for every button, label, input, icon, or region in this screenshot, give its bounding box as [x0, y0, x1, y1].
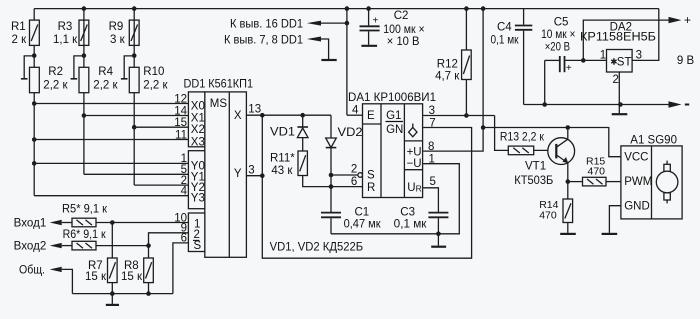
svg-text:× 10 В: × 10 В	[387, 36, 420, 48]
node Y output junction	[260, 173, 265, 178]
svg-text:E: E	[367, 110, 375, 122]
node R12 bottom junction	[464, 113, 469, 118]
wire DA1 pin3 output row	[423, 115, 495, 117]
regulator DA2 box	[607, 50, 633, 73]
svg-text:15: 15	[174, 117, 187, 129]
resistor R2 trimmer	[30, 67, 40, 92]
svg-text:G1: G1	[386, 110, 401, 122]
node X0 junction	[32, 101, 37, 106]
wire DD1 pin3 Y output row	[246, 175, 262, 177]
svg-text:1: 1	[429, 154, 435, 166]
wire VT1 emitter down	[567, 163, 569, 199]
node X1 junction	[82, 113, 87, 118]
svg-text:Вход2: Вход2	[14, 241, 47, 253]
wire timing loop to DA1 pin7	[262, 115, 471, 258]
svg-text:6: 6	[351, 176, 357, 188]
wire R12 bottom	[465, 80, 467, 116]
svg-text:Вход1: Вход1	[14, 218, 47, 230]
svg-text:X: X	[234, 110, 242, 122]
ground chassis below R7	[111, 294, 113, 304]
svg-text:+: +	[566, 63, 572, 74]
svg-text:3: 3	[429, 105, 435, 117]
wire VT1 collector up	[567, 128, 569, 140]
wire R4 trimmer tap	[74, 56, 84, 79]
svg-text:14: 14	[174, 105, 187, 117]
node X3 junction	[32, 137, 37, 142]
svg-text:C4: C4	[497, 22, 512, 34]
wire to DD1 pin16 power	[321, 22, 347, 24]
node X2 junction	[132, 125, 137, 130]
svg-text:VD2: VD2	[338, 127, 363, 139]
svg-text:10 мк ×: 10 мк ×	[541, 29, 575, 41]
node riser rail junction	[481, 6, 486, 11]
arrow Vhod1	[50, 220, 62, 225]
multiplexer DD1 address field	[188, 213, 204, 252]
svg-text:R5* 9,1 к: R5* 9,1 к	[62, 204, 108, 216]
node R3 R4 junction	[82, 53, 87, 58]
svg-text:C2: C2	[394, 10, 409, 22]
svg-text:+U: +U	[407, 147, 422, 159]
node X output junction	[260, 113, 265, 118]
svg-text:3: 3	[636, 50, 642, 62]
svg-text:A1 SG90: A1 SG90	[630, 135, 677, 147]
wire minus sign dash	[685, 104, 689, 106]
wire +5V top rail	[34, 8, 659, 10]
svg-text:DA1 КР1006ВИ1: DA1 КР1006ВИ1	[348, 92, 436, 104]
svg-text:R3: R3	[58, 21, 73, 33]
resistor R5	[72, 218, 96, 227]
svg-text:ST: ST	[617, 57, 632, 69]
wire ground row C1 C3	[331, 164, 459, 234]
svg-text:X0: X0	[191, 101, 205, 113]
svg-text:С5: С5	[554, 16, 569, 28]
wire R8 bottom	[148, 283, 150, 294]
node emitter junction	[566, 179, 571, 184]
svg-text:12: 12	[174, 93, 187, 105]
svg-text:3 к: 3 к	[110, 34, 126, 46]
svg-text:MS: MS	[210, 98, 228, 110]
node R1 R2 junction	[32, 53, 37, 58]
resistor R15	[583, 177, 607, 186]
wire R11 bottom to pin6 row	[303, 176, 363, 187]
arrow Obsch	[50, 267, 62, 272]
symbol DA2 stabilizer star	[613, 58, 615, 64]
node C3 ground junction	[436, 232, 441, 237]
timer DA1 E field divider	[363, 123, 382, 125]
resistor R7	[108, 258, 118, 283]
wire R5 to DD1 pin10	[96, 222, 188, 224]
svg-text:Y3: Y3	[191, 193, 205, 205]
svg-text:R13 2,2 к: R13 2,2 к	[500, 132, 545, 144]
node riser collector row junction	[481, 125, 486, 130]
svg-text:100 мк ×: 100 мк ×	[383, 24, 424, 36]
node R7 top junction	[110, 220, 115, 225]
wire bottom common rail	[72, 293, 172, 295]
svg-text:R: R	[416, 183, 422, 193]
timer DA1 UR field divider	[404, 169, 422, 171]
symbol servo motor	[666, 161, 668, 165]
node R9 R10 junction	[132, 53, 137, 58]
wire R15 to PWM	[606, 181, 621, 183]
wire R9 to R10	[133, 9, 135, 68]
servo A1 box	[621, 146, 682, 219]
svg-text:8: 8	[428, 141, 434, 153]
wire DD1 pin13 X output row	[246, 114, 331, 116]
svg-text:+: +	[684, 13, 691, 27]
node Y0 junction	[32, 161, 37, 166]
svg-text:С1: С1	[355, 207, 370, 219]
svg-text:+: +	[373, 16, 379, 27]
node rail junction R3	[82, 6, 87, 11]
wire Y0 row	[34, 162, 188, 164]
wire R13 to VT1 base	[534, 149, 556, 151]
svg-text:2,2 к: 2,2 к	[143, 79, 168, 91]
svg-text:U: U	[407, 182, 415, 194]
svg-text:VD1, VD2 КД522Б: VD1, VD2 КД522Б	[270, 241, 364, 253]
timer DA1 box	[363, 104, 423, 198]
svg-text:1: 1	[600, 50, 606, 62]
capacitor C3	[428, 212, 448, 214]
svg-text:0,1 мк: 0,1 мк	[394, 219, 428, 231]
multiplexer DD1 Y label field	[188, 151, 204, 209]
svg-text:13: 13	[248, 104, 261, 116]
wire Y2 row	[134, 184, 188, 186]
wire X2 row	[134, 126, 188, 128]
wire R3 to R4	[83, 9, 85, 68]
wire column1 X0 to Y3	[33, 104, 35, 196]
wire C5 ground drop	[544, 60, 546, 104]
node VD1 top junction	[300, 113, 305, 118]
wire X3 row	[34, 139, 188, 141]
timer DA1 output field divider	[404, 140, 422, 142]
node pin16 branch junction	[345, 21, 350, 26]
svg-text:VT1: VT1	[525, 161, 546, 173]
wire R1 to R2	[33, 45, 35, 67]
svg-text:DD1 К561КП1: DD1 К561КП1	[184, 78, 254, 90]
svg-text:X2: X2	[191, 124, 205, 136]
label DD1 pin numbers	[174, 93, 187, 244]
svg-text:1,1 к: 1,1 к	[53, 34, 78, 46]
wire R1 R3 R9 top rail corner	[33, 9, 35, 21]
svg-text:2,2 к: 2,2 к	[43, 79, 68, 91]
svg-text:3: 3	[248, 165, 254, 177]
svg-text:5: 5	[430, 176, 436, 188]
symbol DA1 output diamond	[412, 124, 414, 128]
ground chassis below R14	[560, 233, 576, 235]
svg-text:×20 В: ×20 В	[545, 42, 571, 54]
wire to DD1 pins 7 8 ground	[321, 39, 329, 59]
wire R7 top	[111, 223, 113, 259]
svg-text:VCC: VCC	[624, 152, 648, 164]
svg-text:7: 7	[429, 118, 435, 130]
wire column2 X1 to Y1	[83, 116, 85, 175]
svg-text:S: S	[367, 169, 375, 181]
resistor R13	[508, 146, 533, 155]
wire R2 trimmer tap	[24, 56, 34, 79]
svg-text:R: R	[367, 182, 375, 194]
wire column3 X2 to Y2	[133, 127, 135, 185]
node R12 rail junction	[464, 6, 469, 11]
wire X0 row	[34, 103, 188, 105]
wire battery plus line	[583, 20, 668, 60]
svg-text:Y: Y	[234, 168, 242, 180]
wire servo GND	[609, 206, 621, 233]
node battery plus junction	[581, 58, 586, 63]
wire DA2 pin2 stub	[618, 72, 620, 105]
svg-text:15 к: 15 к	[121, 271, 143, 283]
svg-text:К выв. 16 DD1: К выв. 16 DD1	[230, 18, 303, 30]
svg-text:9 В: 9 В	[677, 55, 695, 67]
arrow battery minus terminal	[669, 101, 682, 107]
svg-text:470: 470	[588, 166, 606, 178]
wire Vhod1 input row	[62, 222, 72, 224]
svg-text:VD1: VD1	[270, 127, 295, 139]
node DA2 pin2 ground junction	[618, 102, 623, 107]
arrow to DD1 pin16	[307, 21, 321, 26]
ground chassis servo	[602, 233, 618, 235]
svg-text:470: 470	[539, 209, 557, 221]
svg-text:R4: R4	[98, 66, 113, 78]
svg-text:S: S	[194, 240, 202, 252]
svg-text:X1: X1	[191, 113, 205, 125]
wire X1 row	[84, 115, 188, 117]
svg-text:R12: R12	[437, 58, 458, 70]
resistor R12	[462, 50, 472, 80]
svg-text:R11*: R11*	[270, 152, 295, 164]
wire DA1 pin3 to R13	[495, 116, 509, 151]
resistor R11	[298, 151, 307, 176]
node VD2 pin6 junction	[329, 184, 334, 189]
multiplexer DD1 main box	[205, 92, 247, 257]
resistor R4 trimmer	[79, 67, 89, 92]
ground chassis at DA2 pin2	[618, 105, 620, 114]
svg-text:R9: R9	[109, 21, 124, 33]
svg-text:43 к: 43 к	[271, 165, 293, 177]
svg-text:4: 4	[352, 105, 359, 117]
wire DA1 pin2 row	[331, 174, 358, 176]
wire R14 bottom	[567, 223, 569, 233]
wire Y1 row	[84, 173, 188, 175]
transistor VT1	[548, 138, 575, 165]
resistor R9	[129, 20, 139, 45]
svg-text:0,47 мк: 0,47 мк	[344, 219, 382, 231]
node VD2 pin2 junction	[329, 173, 334, 178]
svg-text:PWM: PWM	[624, 176, 652, 188]
wire minus rail	[524, 104, 671, 106]
svg-text:2 к: 2 к	[12, 34, 28, 46]
wire Y3 row	[34, 195, 188, 197]
svg-text:11: 11	[175, 129, 187, 141]
node R7 bottom junction	[110, 291, 115, 296]
svg-text:R10: R10	[143, 66, 164, 78]
wire R4 bottom	[83, 93, 85, 116]
svg-text:6: 6	[181, 233, 187, 245]
svg-text:С3: С3	[400, 207, 415, 219]
wire R7 bottom	[111, 283, 113, 294]
resistor R10 trimmer	[129, 67, 139, 92]
svg-text:2: 2	[351, 163, 357, 175]
label DD1 strobe overline	[193, 239, 199, 241]
multiplexer DD1 X label field	[188, 92, 204, 147]
wire DA2 input riser from rail	[632, 9, 659, 61]
svg-text:4: 4	[181, 186, 188, 198]
capacitor C1	[321, 212, 341, 214]
resistor R1	[30, 20, 40, 45]
ground chassis below C2	[361, 45, 377, 47]
svg-text:R2: R2	[48, 66, 63, 78]
wire DD1 pin9 row	[149, 233, 189, 258]
wire R12 top	[465, 9, 467, 50]
node rail junction R9	[132, 6, 137, 11]
svg-text:X3: X3	[191, 137, 205, 149]
svg-text:2,2 к: 2,2 к	[93, 79, 118, 91]
wire DA1 pin8 row to rail riser	[423, 9, 483, 152]
resistor R14	[563, 199, 573, 223]
wire Obsch common row	[62, 269, 73, 293]
resistor R8	[144, 258, 154, 283]
wire R10 trimmer tap	[124, 56, 134, 79]
capacitor C5	[545, 59, 559, 61]
svg-text:GN: GN	[386, 124, 403, 136]
wire R10 bottom	[133, 93, 135, 128]
svg-text:Общ.: Общ.	[19, 264, 45, 276]
capacitor C2	[368, 9, 370, 26]
svg-text:4,7 к: 4,7 к	[435, 70, 460, 82]
diode VD2	[330, 115, 332, 138]
arrow battery plus terminal	[669, 17, 682, 23]
wire DA1 pin4 row	[347, 114, 363, 116]
resistor R3	[79, 20, 89, 45]
wire Vhod2 input row	[62, 245, 72, 247]
wire collector power row	[483, 128, 621, 157]
svg-text:−U: −U	[407, 158, 422, 170]
svg-text:15 к: 15 к	[85, 271, 107, 283]
arrow to DD1 pins 7 8	[307, 37, 321, 42]
svg-text:КР1158ЕН5Б: КР1158ЕН5Б	[580, 31, 656, 43]
ground chassis below C3	[437, 234, 439, 246]
arrow Vhod2	[50, 243, 62, 248]
node pin16 rail junction	[345, 6, 350, 11]
svg-text:0,1 мк: 0,1 мк	[491, 34, 520, 46]
svg-text:R6* 9,1 к: R6* 9,1 к	[63, 229, 107, 241]
wire DD1 pin16 riser to rail	[346, 9, 348, 116]
wire R6 to R8 node	[96, 245, 149, 247]
wire R2 bottom	[33, 93, 35, 104]
ground chassis DD1 pins 7 8	[321, 59, 336, 61]
resistor R6	[72, 241, 96, 250]
node R8 bottom junction	[146, 291, 151, 296]
diode VD1	[302, 115, 304, 127]
svg-text:К выв. 7, 8 DD1: К выв. 7, 8 DD1	[224, 34, 303, 46]
node C2 rail junction	[366, 6, 371, 11]
node C5 ground junction	[542, 102, 547, 107]
svg-text:2: 2	[613, 74, 619, 86]
wire DD1 pin6 strobe row	[173, 243, 189, 294]
wire emitter to R15	[568, 181, 583, 183]
node VT1 collector junction	[566, 125, 571, 130]
node R6 R8 pin9 junction	[146, 243, 151, 248]
capacitor C4	[523, 9, 525, 25]
svg-text:R1: R1	[11, 21, 26, 33]
node DA1 S inversion circle	[358, 173, 363, 178]
svg-text:КТ503Б: КТ503Б	[514, 175, 553, 187]
wire DA1 pin5 to C3	[423, 188, 438, 213]
svg-text:GND: GND	[624, 201, 650, 213]
